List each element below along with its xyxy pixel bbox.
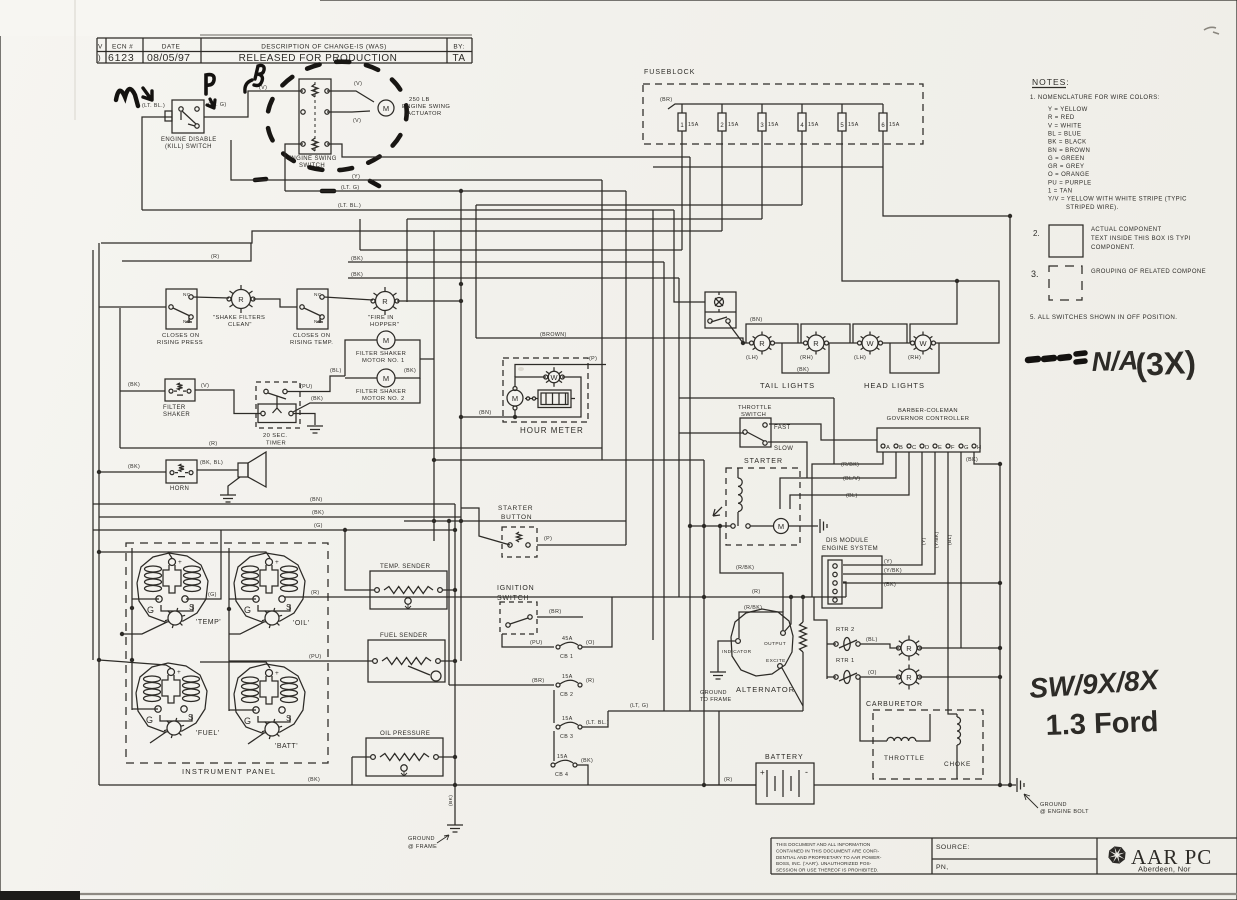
handwritten NA 3X — [1028, 357, 1069, 360]
throttle switch — [740, 418, 771, 447]
svg-text:(BK): (BK) — [404, 368, 416, 374]
wire LT G y711 — [608, 710, 803, 712]
svg-text:(BK): (BK) — [128, 464, 140, 470]
light bus — [743, 342, 933, 344]
svg-text:20 SEC.: 20 SEC. — [263, 433, 287, 439]
trunk x461 — [460, 191, 462, 661]
svg-text:(BL): (BL) — [846, 493, 858, 499]
svg-text:(BK, BL): (BK, BL) — [200, 460, 223, 466]
svg-text:G: G — [244, 605, 251, 615]
bottom scan line — [80, 893, 1237, 895]
engine disable kill switch — [172, 100, 204, 133]
svg-text:Y = YELLOW: Y = YELLOW — [1048, 107, 1088, 113]
svg-text:15A: 15A — [808, 122, 819, 128]
starter solenoid contacts — [731, 524, 735, 528]
trunk x690 — [689, 157, 691, 711]
wire horn to speaker — [197, 469, 238, 471]
wire DIS BK to bus — [843, 582, 1000, 584]
wire starter motor to ground — [788, 525, 818, 527]
wire fast — [769, 424, 877, 440]
wire rtr2 to bus — [919, 647, 1000, 649]
svg-text:M: M — [383, 374, 389, 383]
svg-text:TEXT INSIDE THIS BOX IS TYPI: TEXT INSIDE THIS BOX IS TYPI — [1091, 236, 1191, 242]
ground speaker — [228, 477, 240, 495]
svg-text:GOVERNOR CONTROLLER: GOVERNOR CONTROLLER — [887, 416, 970, 422]
wire R2 right — [397, 300, 461, 302]
wire swing bottom contact — [327, 144, 690, 157]
svg-text:CHOKE: CHOKE — [944, 761, 971, 768]
trunk x626 — [625, 191, 627, 545]
bottom scan bar — [0, 891, 80, 900]
wire slow — [768, 442, 807, 478]
svg-text:(BR): (BR) — [532, 678, 545, 684]
svg-text:N/A: N/A — [1091, 345, 1139, 377]
wire swing to actuator top — [327, 91, 374, 102]
svg-text:HOUR METER: HOUR METER — [520, 426, 584, 435]
hour meter internal wires — [515, 377, 546, 387]
fuse F6 — [882, 104, 884, 113]
svg-text:CARBURETOR: CARBURETOR — [866, 701, 923, 708]
svg-text:RTR 2: RTR 2 — [836, 627, 855, 633]
hour meter W gauge — [559, 371, 562, 373]
trunk x653 — [652, 210, 654, 640]
wire fuse2 branch — [101, 231, 722, 243]
svg-text:FILTER SHAKER: FILTER SHAKER — [356, 389, 406, 395]
svg-text:IGNITION: IGNITION — [497, 585, 535, 592]
paper fold line — [74, 0, 76, 120]
svg-text:SHAKER: SHAKER — [163, 412, 190, 418]
panel gauge FUEL — [136, 663, 207, 732]
gov terminal drops — [812, 452, 883, 597]
svg-text:CB 2: CB 2 — [560, 692, 573, 698]
svg-text:(R/BK): (R/BK) — [744, 605, 762, 611]
wire lamp feed — [674, 210, 705, 302]
starter vertical x704 — [703, 460, 705, 785]
wire R left loop — [122, 243, 251, 261]
pressure switch closes on rising press — [166, 289, 197, 329]
alternator — [731, 609, 793, 676]
wire rtr1 to bus — [919, 676, 1000, 678]
wire to filter shaker — [120, 390, 165, 392]
svg-text:(LH): (LH) — [746, 355, 758, 361]
filter shaker motor no 1 — [377, 331, 395, 349]
svg-text:OIL PRESSURE: OIL PRESSURE — [380, 730, 430, 737]
svg-text:15A: 15A — [557, 754, 568, 760]
20 sec timer — [256, 382, 300, 428]
svg-text:(Y): (Y) — [884, 559, 892, 565]
panel mid bus — [228, 548, 230, 711]
tail light R RH — [823, 336, 826, 338]
svg-text:(Y/BK): (Y/BK) — [934, 531, 940, 548]
light top loops — [746, 324, 798, 343]
svg-text:R: R — [238, 295, 244, 304]
svg-text:R = RED: R = RED — [1048, 115, 1075, 121]
svg-text:(3X): (3X) — [1134, 344, 1196, 383]
hand-drawn dashed circle — [260, 53, 414, 179]
wire BR to CB2 — [449, 684, 554, 686]
svg-text:1 = TAN: 1 = TAN — [1048, 189, 1072, 195]
svg-text:(BK): (BK) — [966, 457, 978, 463]
hour meter counter — [538, 390, 571, 408]
alternator output wire — [785, 597, 791, 631]
svg-text:(P): (P) — [544, 536, 552, 542]
wire y460 — [434, 459, 704, 461]
scan speck top right — [1204, 27, 1219, 34]
indicator R shake filters clean — [249, 291, 253, 294]
starter coil — [737, 468, 739, 478]
svg-text:DIS MODULE: DIS MODULE — [826, 537, 869, 544]
svg-text:CONTAINED IN THIS DOCUMENT ARE: CONTAINED IN THIS DOCUMENT ARE CONFI- — [776, 848, 880, 853]
wire battery left — [704, 784, 756, 786]
svg-text:CLEAN": CLEAN" — [228, 322, 252, 328]
svg-text:ENGINE SWING: ENGINE SWING — [402, 104, 450, 110]
svg-text:W: W — [866, 339, 874, 348]
svg-text:PU = PURPLE: PU = PURPLE — [1048, 180, 1092, 186]
wire BN to hour meter — [461, 416, 513, 418]
wire bus to pressure switch — [99, 306, 166, 308]
svg-text:+: + — [275, 559, 279, 566]
svg-text:BOSS, INC. ('AAR'). UNAUTHORIZ: BOSS, INC. ('AAR'). UNAUTHORIZED POS- — [776, 861, 872, 866]
svg-text:(BN): (BN) — [310, 497, 323, 503]
svg-text:RISING TEMP.: RISING TEMP. — [290, 340, 333, 346]
svg-text:(BR): (BR) — [660, 97, 673, 103]
svg-text:'FUEL': 'FUEL' — [196, 730, 220, 737]
wire R to temp switch — [253, 299, 297, 307]
wire BK upper — [348, 261, 664, 263]
starter pull-in arrow — [713, 507, 722, 516]
motor loop wires — [345, 340, 377, 376]
svg-text:(LT. BL.): (LT. BL.) — [338, 203, 361, 209]
wire throttle feed — [860, 677, 879, 741]
handwriting P with arrow — [206, 75, 214, 94]
svg-text:CB 1: CB 1 — [560, 654, 573, 660]
svg-text:1. NOMENCLATURE FOR WIRE COLOR: 1. NOMENCLATURE FOR WIRE COLORS: — [1030, 95, 1160, 101]
wire LT G — [285, 190, 626, 192]
svg-text:(PU): (PU) — [300, 384, 313, 390]
horn solenoid — [166, 460, 197, 483]
bus x1010 dots — [1008, 214, 1012, 218]
svg-text:NC: NC — [183, 292, 191, 298]
fuse F2 — [721, 104, 723, 113]
svg-text:CB 4: CB 4 — [555, 772, 568, 778]
svg-text:(Y/BK): (Y/BK) — [884, 568, 902, 574]
svg-text:(O): (O) — [868, 670, 877, 676]
svg-text:15A: 15A — [688, 122, 699, 128]
svg-text:FILTER: FILTER — [163, 405, 186, 411]
svg-text:DENTIAL AND PROPRIETARY TO AAR: DENTIAL AND PROPRIETARY TO AAR POWER- — [776, 855, 882, 860]
svg-text:(KILL) SWITCH: (KILL) SWITCH — [165, 144, 212, 150]
svg-text:O = ORANGE: O = ORANGE — [1048, 172, 1090, 178]
temp switch closes on rising temp — [297, 289, 328, 329]
svg-text:G: G — [147, 605, 154, 615]
svg-text:D: D — [925, 445, 929, 451]
ground starter — [819, 519, 821, 533]
ground at frame — [454, 785, 456, 825]
fuse F3 — [761, 104, 763, 113]
alternator excite wire — [782, 668, 803, 706]
svg-text:(Y): (Y) — [352, 174, 360, 180]
wire BK top — [99, 516, 461, 518]
instrument panel box — [126, 543, 328, 763]
hand dash on Y wire — [255, 179, 266, 180]
svg-text:(BK): (BK) — [448, 795, 454, 806]
left bus x99 — [98, 243, 100, 785]
wire P out — [515, 365, 606, 378]
svg-text:250 LB: 250 LB — [409, 97, 430, 103]
wire oil pressure left — [352, 756, 371, 758]
trunk x679 — [678, 278, 680, 597]
fuse F1 — [681, 104, 683, 113]
svg-text:INSTRUMENT PANEL: INSTRUMENT PANEL — [182, 767, 276, 776]
wire fuse4 branch — [476, 204, 802, 206]
svg-text:(RH): (RH) — [908, 355, 921, 361]
wire R long — [302, 596, 846, 598]
svg-text:MOTOR NO. 1: MOTOR NO. 1 — [362, 358, 405, 364]
svg-text:R: R — [382, 297, 388, 306]
panel gauge OIL — [234, 553, 305, 622]
svg-text:SWITCH: SWITCH — [741, 412, 766, 418]
circuit breaker CB 2 — [556, 683, 560, 687]
svg-text:SWITCH: SWITCH — [497, 595, 529, 602]
swing actuator motor U1 — [378, 100, 394, 116]
svg-text:G: G — [964, 445, 969, 451]
svg-text:(BK): (BK) — [312, 510, 324, 516]
svg-text:(P): (P) — [589, 356, 597, 362]
svg-text:E: E — [938, 445, 942, 451]
svg-text:RELEASED FOR PRODUCTION: RELEASED FOR PRODUCTION — [239, 53, 398, 64]
svg-text:(RH): (RH) — [800, 355, 813, 361]
wire kill switch right to swing switch — [204, 91, 303, 117]
wire brown long — [476, 338, 743, 343]
svg-text:COMPONENT.: COMPONENT. — [1091, 245, 1135, 251]
svg-text:W: W — [550, 373, 558, 382]
svg-text:15A: 15A — [728, 122, 739, 128]
svg-text:): ) — [98, 54, 101, 63]
panel bottom diagonals — [122, 622, 167, 634]
left mid vertical — [119, 308, 121, 448]
svg-text:THIS DOCUMENT AND ALL INFORMAT: THIS DOCUMENT AND ALL INFORMATION — [776, 842, 870, 847]
CB chain verticals — [553, 690, 555, 723]
svg-text:V: V — [98, 44, 103, 51]
svg-text:@ FRAME: @ FRAME — [408, 844, 437, 850]
svg-text:(BL): (BL) — [947, 534, 953, 545]
wire switch to lights — [728, 323, 743, 343]
svg-text:ALTERNATOR: ALTERNATOR — [736, 685, 795, 694]
engine swing switch — [299, 79, 331, 154]
wire swing left-bottom to LT G line — [285, 144, 303, 191]
wire ignition to CB1 — [502, 634, 554, 647]
circuit breaker CB 4 — [551, 763, 555, 767]
svg-text:ECN #: ECN # — [112, 44, 133, 51]
svg-text:(BL): (BL) — [866, 637, 878, 643]
wire G top — [93, 529, 455, 531]
indicator R rtr1 — [916, 670, 920, 673]
handwriting m with arrow — [116, 89, 138, 106]
wire swing to actuator mid — [327, 111, 370, 112]
wire BR ignition — [537, 616, 583, 618]
svg-text:R: R — [813, 339, 819, 348]
svg-text:+: + — [178, 559, 182, 566]
svg-text:TAIL LIGHTS: TAIL LIGHTS — [760, 381, 815, 390]
wire fuel sender right — [441, 660, 455, 662]
svg-text:OUTPUT: OUTPUT — [764, 641, 786, 647]
svg-text:TIMER: TIMER — [266, 441, 286, 447]
starter motor — [774, 519, 789, 534]
svg-text:STARTER: STARTER — [498, 505, 533, 512]
wire throttle feed — [679, 432, 744, 434]
throttle coil — [879, 740, 887, 742]
svg-text:6123: 6123 — [108, 52, 135, 64]
wire CB4 right — [577, 765, 588, 785]
svg-text:(PU): (PU) — [530, 640, 543, 646]
head light W RH — [930, 336, 933, 338]
alternator indicator ground — [718, 641, 735, 672]
panel top feed — [99, 552, 172, 558]
wire R lower — [120, 447, 602, 449]
svg-text:BATTERY: BATTERY — [765, 754, 804, 761]
svg-text:CLOSES ON: CLOSES ON — [162, 333, 199, 339]
svg-text:STRIPED WIRE).: STRIPED WIRE). — [1066, 205, 1119, 211]
svg-text:GROUPING OF RELATED COMPONE: GROUPING OF RELATED COMPONE — [1091, 269, 1206, 275]
svg-text:A: A — [886, 445, 890, 451]
head light W LH — [877, 336, 880, 338]
svg-text:BN = BROWN: BN = BROWN — [1048, 148, 1090, 154]
trunk x407 — [406, 219, 408, 302]
wire BN top — [93, 503, 455, 505]
wire R gauge S — [284, 596, 302, 598]
svg-text:CLOSES ON: CLOSES ON — [293, 333, 330, 339]
legal text box — [770, 838, 772, 874]
wire oil pressure right — [439, 756, 455, 758]
hour meter motor — [507, 390, 523, 406]
oil pressure sender — [366, 738, 443, 776]
svg-text:RISING PRESS: RISING PRESS — [157, 340, 203, 346]
svg-text:DATE: DATE — [162, 44, 181, 51]
wire temp NC to R2 — [324, 297, 373, 300]
svg-text:45A: 45A — [562, 636, 573, 642]
svg-text:TO FRAME: TO FRAME — [700, 697, 732, 703]
fuse top bus — [668, 104, 883, 109]
svg-text:(BK): (BK) — [128, 382, 140, 388]
barber-coleman governor controller — [877, 428, 980, 452]
svg-text:Aberdeen, Nor: Aberdeen, Nor — [1138, 865, 1191, 874]
svg-text:EXCITE: EXCITE — [766, 658, 786, 664]
svg-text:15A: 15A — [889, 122, 900, 128]
panel gauge BATT — [234, 664, 305, 733]
svg-text:CB 3: CB 3 — [560, 734, 573, 740]
svg-text:(BN): (BN) — [750, 317, 763, 323]
wire kill switch left — [142, 117, 172, 210]
left bus x93 — [92, 250, 94, 660]
svg-text:(R): (R) — [724, 777, 733, 783]
wire BK lower — [348, 277, 679, 279]
resistor R1 — [802, 597, 804, 622]
choke coil — [956, 714, 958, 717]
svg-text:@ ENGINE BOLT: @ ENGINE BOLT — [1040, 809, 1089, 815]
svg-text:DESCRIPTION OF CHANGE-IS (WAS): DESCRIPTION OF CHANGE-IS (WAS) — [261, 44, 386, 51]
wire timer ground — [293, 414, 315, 426]
hand dash on LT G wire — [322, 189, 334, 194]
panel lower feed — [99, 660, 171, 668]
svg-text:C: C — [912, 445, 916, 451]
svg-text:B: B — [899, 445, 903, 451]
bottom block top line — [771, 837, 1237, 839]
svg-text:(R): (R) — [211, 254, 220, 260]
svg-text:GROUND: GROUND — [408, 836, 435, 842]
wire battery right to bus — [814, 784, 1010, 786]
fuel sender — [368, 640, 445, 682]
svg-text:GR = GREY: GR = GREY — [1048, 164, 1084, 170]
panel left bus — [131, 548, 133, 710]
svg-text:(R): (R) — [752, 589, 761, 595]
svg-text:(V): (V) — [353, 118, 361, 124]
svg-text:15A: 15A — [562, 716, 573, 722]
trunk x476 brown feed — [475, 205, 477, 338]
wire fuse3 branch — [407, 218, 762, 220]
indicator R fire in hopper — [393, 293, 397, 296]
wire temp sender left — [345, 531, 374, 590]
svg-text:-: - — [805, 767, 808, 777]
svg-text:M: M — [383, 336, 389, 345]
svg-text:FILTER SHAKER: FILTER SHAKER — [356, 351, 406, 357]
svg-text:H: H — [977, 445, 981, 451]
wire timer BK — [293, 378, 420, 412]
svg-text:MOTOR NO. 2: MOTOR NO. 2 — [362, 396, 405, 402]
sender bus x455 — [454, 504, 456, 785]
fuse bottom bus — [653, 166, 883, 168]
svg-text:BK = BLACK: BK = BLACK — [1048, 140, 1087, 146]
svg-text:NOTES:: NOTES: — [1032, 77, 1070, 87]
svg-text:'TEMP': 'TEMP' — [196, 619, 221, 626]
svg-text:W: W — [919, 339, 927, 348]
wire Y — [231, 140, 602, 180]
svg-text:"FIRE IN: "FIRE IN — [368, 315, 394, 321]
svg-text:(V): (V) — [354, 81, 362, 87]
wire P starter button — [537, 544, 626, 546]
svg-text:(BK): (BK) — [351, 256, 363, 262]
svg-text:V = WHITE: V = WHITE — [1048, 123, 1082, 129]
circuit breaker CB 3 — [556, 725, 560, 729]
alternator top loop — [739, 612, 783, 638]
svg-text:(BK): (BK) — [308, 777, 320, 783]
wire G gauge S — [186, 530, 221, 599]
handwriting B with hook — [245, 80, 252, 92]
svg-text:GROUND: GROUND — [1040, 802, 1067, 808]
svg-text:(BROWN): (BROWN) — [540, 332, 567, 338]
AAR logo — [1119, 852, 1126, 859]
svg-text:(Y): (Y) — [921, 537, 927, 545]
svg-text:M: M — [512, 394, 518, 403]
svg-text:(BK): (BK) — [351, 272, 363, 278]
svg-text:08/05/97: 08/05/97 — [147, 52, 190, 64]
svg-text:GROUND: GROUND — [700, 690, 727, 696]
svg-text:FUSEBLOCK: FUSEBLOCK — [644, 69, 695, 76]
fuse F4 — [801, 104, 803, 113]
svg-text:M: M — [383, 104, 389, 113]
svg-text:(BN): (BN) — [479, 410, 492, 416]
trunk x449 — [448, 521, 450, 685]
svg-text:RTR 1: RTR 1 — [836, 658, 855, 664]
svg-text:ACTUAL COMPONENT: ACTUAL COMPONENT — [1091, 227, 1162, 233]
wire motors to trunk — [420, 358, 434, 360]
svg-text:Y/V = YELLOW WITH WHITE STRIPE: Y/V = YELLOW WITH WHITE STRIPE (TYPIC — [1048, 197, 1187, 203]
wire bus to horn — [99, 471, 166, 473]
svg-text:PN,: PN, — [936, 864, 949, 871]
fuse F5 — [841, 104, 843, 113]
svg-text:(R): (R) — [586, 678, 595, 684]
speaker — [238, 463, 248, 477]
svg-text:'BATT': 'BATT' — [275, 743, 298, 750]
